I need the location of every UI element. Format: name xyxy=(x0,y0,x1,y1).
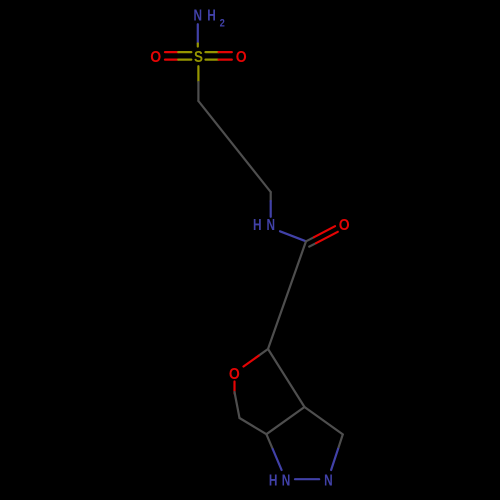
wire S=O left double bond upper line xyxy=(165,51,178,53)
wire amide N-C bond xyxy=(280,231,306,241)
svg-text:N: N xyxy=(266,215,275,233)
wire S-C bond below sulfur xyxy=(197,66,199,82)
wire pyrazole N1-N2 bond xyxy=(295,478,319,480)
wire S=O right double bond lower line xyxy=(206,58,219,60)
node HN amide label xyxy=(253,215,275,233)
wire CH2-C5 bond xyxy=(240,418,267,434)
wire C-N bond above amide N xyxy=(270,192,272,201)
wire pyrazole C5-N1 bond xyxy=(266,434,272,449)
wire carbon chain diagonal to amide xyxy=(198,101,270,192)
wire pyrazole C3-N2 bond xyxy=(338,434,343,448)
wire O-CH2 bond xyxy=(233,382,235,394)
svg-text:H: H xyxy=(269,471,278,489)
svg-text:S: S xyxy=(194,49,203,66)
svg-text:O: O xyxy=(150,48,161,66)
wire pyrazole C4-C3 bond xyxy=(305,407,343,434)
wire C-O ether bond xyxy=(259,349,269,356)
wire carbon chain carbonyl down to ether vertex xyxy=(268,241,306,349)
wire C=O double bond line 2 xyxy=(309,243,316,246)
node NH2 sulfonamide label xyxy=(193,6,225,30)
wire N-S bond (sulfur half) xyxy=(197,44,199,47)
wire S=O left double bond lower line xyxy=(165,58,178,60)
wire vertex to pyrazole C4 bond xyxy=(268,349,305,407)
wire pyrazole C4-C5 bond xyxy=(266,407,304,434)
svg-text:2: 2 xyxy=(220,18,225,30)
wire N-S bond (blue half) xyxy=(197,24,199,43)
svg-text:O: O xyxy=(236,48,247,66)
svg-text:H: H xyxy=(207,6,216,24)
svg-text:H: H xyxy=(253,215,262,233)
wire C=O double bond line 1 xyxy=(306,237,314,241)
node HN pyrazole label xyxy=(269,471,290,489)
svg-text:N: N xyxy=(193,6,202,24)
wire S=O right double bond upper line xyxy=(206,51,219,53)
svg-text:N: N xyxy=(282,471,291,489)
svg-text:O: O xyxy=(339,216,350,234)
svg-text:N: N xyxy=(324,471,333,489)
svg-text:O: O xyxy=(229,365,240,383)
